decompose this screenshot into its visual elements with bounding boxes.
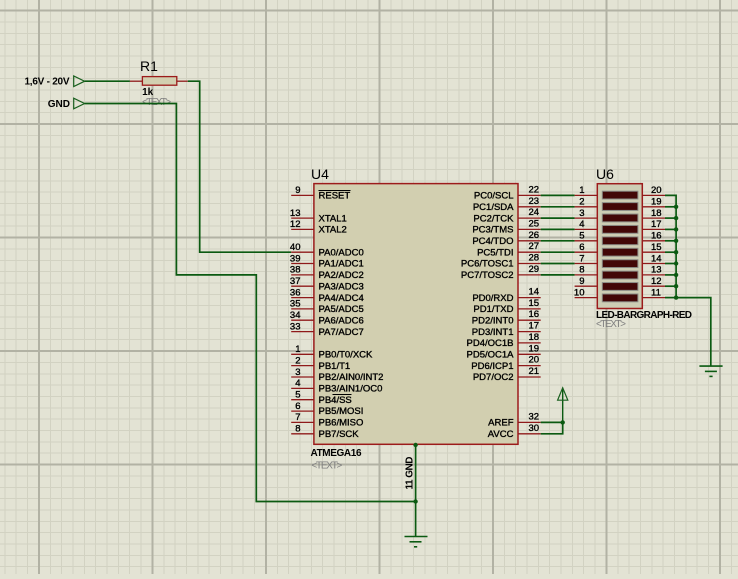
wire bargraph pin 18 to bus: [665, 217, 676, 219]
svg-text:18: 18: [529, 332, 540, 343]
pin 30 (AVCC): [488, 423, 541, 440]
svg-text:24: 24: [529, 207, 540, 218]
svg-text:5: 5: [295, 390, 300, 401]
svg-text:26: 26: [529, 230, 540, 241]
junction gnd net: [413, 499, 417, 503]
pin 6 (PB5/MOSI): [291, 401, 363, 417]
bargraph pin 19: [642, 197, 665, 208]
svg-text:1: 1: [579, 185, 584, 196]
junction: [674, 227, 678, 231]
svg-text:<TEXT>: <TEXT>: [596, 319, 626, 330]
svg-text:PB2/AIN0/INT2: PB2/AIN0/INT2: [319, 372, 384, 383]
bargraph pin 1: [575, 185, 598, 196]
wire PC3 to bargraph pin 4: [541, 228, 575, 230]
svg-text:37: 37: [290, 276, 301, 287]
junction: [674, 250, 678, 254]
bargraph pin 17: [642, 219, 665, 230]
svg-text:PC7/TOSC2: PC7/TOSC2: [461, 270, 514, 281]
led bar 7: [602, 260, 638, 268]
svg-text:PD0/RXD: PD0/RXD: [472, 293, 513, 304]
svg-text:14: 14: [529, 287, 540, 298]
svg-text:PA2/ADC2: PA2/ADC2: [319, 270, 364, 281]
svg-text:PD7/OC2: PD7/OC2: [473, 372, 514, 383]
svg-text:PB4/SS: PB4/SS: [319, 395, 352, 406]
bargraph pin 15: [642, 242, 665, 253]
svg-text:9: 9: [295, 185, 300, 196]
wire bargraph pin 14 to bus: [665, 263, 676, 265]
svg-text:38: 38: [290, 265, 301, 276]
svg-text:19: 19: [651, 197, 662, 208]
pin 32 (AREF): [488, 411, 541, 428]
svg-text:33: 33: [290, 321, 301, 332]
pin 40 (PA0/ADC0): [290, 242, 364, 258]
pin 19 (PD5/OC1A): [467, 343, 541, 360]
junction: [674, 261, 678, 265]
svg-text:XTAL2: XTAL2: [319, 225, 347, 236]
bargraph pin 4: [575, 219, 598, 230]
svg-text:PD5/OC1A: PD5/OC1A: [467, 350, 515, 361]
svg-text:11 GND: 11 GND: [405, 457, 416, 490]
svg-text:U4: U4: [311, 166, 329, 182]
pin 8 (PB7/SCK): [291, 424, 359, 440]
pin 26 (PC4/TDO): [472, 230, 540, 247]
led bar 3: [602, 214, 638, 222]
svg-text:36: 36: [290, 287, 301, 298]
led bar 10: [602, 294, 638, 302]
wire bargraph pin 11 to bus: [665, 297, 676, 299]
svg-text:18: 18: [651, 208, 662, 219]
bargraph pin 3: [575, 208, 598, 219]
wire U4 GND (pin 11): [415, 444, 417, 536]
svg-text:12: 12: [290, 219, 301, 230]
wire bargraph pin 13 to bus: [665, 274, 676, 276]
pin 37 (PA3/ADC3): [290, 276, 364, 292]
pin 7 (PB6/MISO): [291, 412, 363, 428]
svg-text:40: 40: [290, 242, 301, 253]
svg-text:20: 20: [651, 185, 662, 196]
junction AREF/AVCC: [561, 420, 565, 424]
svg-text:3: 3: [295, 367, 300, 378]
svg-text:20: 20: [529, 355, 540, 366]
svg-text:PD3/INT1: PD3/INT1: [472, 327, 514, 338]
pin 3 (PB2/AIN0/INT2): [291, 367, 383, 383]
junction: [674, 239, 678, 243]
bargraph pin 7: [575, 253, 598, 264]
junction: [674, 216, 678, 220]
pin 18 (PD4/OC1B): [467, 332, 541, 349]
terminal input 1,6V - 20V: [25, 76, 85, 88]
junction: [674, 284, 678, 288]
svg-text:PD4/OC1B: PD4/OC1B: [467, 338, 514, 349]
svg-text:17: 17: [651, 219, 662, 230]
pin 9 (RESET): [291, 185, 350, 201]
svg-text:21: 21: [529, 366, 540, 377]
bargraph pin 16: [642, 231, 665, 242]
junction: [674, 295, 678, 299]
svg-text:32: 32: [529, 411, 540, 422]
svg-text:PC1/SDA: PC1/SDA: [473, 202, 514, 213]
svg-text:10: 10: [574, 287, 585, 298]
svg-text:15: 15: [651, 242, 662, 253]
bargraph pin 12: [642, 276, 665, 287]
svg-text:25: 25: [529, 218, 540, 229]
svg-text:9: 9: [579, 276, 584, 287]
pin 12 (XTAL2): [290, 219, 347, 235]
wire PC1 to bargraph pin 2: [541, 206, 575, 208]
svg-text:4: 4: [295, 378, 300, 389]
svg-text:2: 2: [295, 355, 300, 366]
led bar 2: [602, 203, 638, 211]
svg-text:5: 5: [579, 231, 584, 242]
svg-text:27: 27: [529, 241, 540, 252]
ground (bargraph): [699, 366, 722, 376]
svg-text:PA7/ADC7: PA7/ADC7: [319, 327, 364, 338]
terminal GND: [48, 98, 85, 110]
svg-text:PA4/ADC4: PA4/ADC4: [319, 293, 364, 304]
svg-text:1: 1: [295, 344, 300, 355]
pin 23 (PC1/SDA): [473, 196, 541, 213]
svg-text:PA3/ADC3: PA3/ADC3: [319, 281, 364, 292]
svg-text:AREF: AREF: [488, 418, 514, 429]
wire PC2 to bargraph pin 3: [541, 217, 575, 219]
pin 24 (PC2/TCK): [473, 207, 540, 224]
svg-text:PC6/TOSC1: PC6/TOSC1: [461, 259, 514, 270]
bargraph pin 8: [575, 265, 598, 276]
bargraph pin 20: [642, 185, 665, 196]
wire PC6 to bargraph pin 7: [541, 263, 575, 265]
svg-text:13: 13: [290, 208, 301, 219]
pin 17 (PD3/INT1): [472, 321, 541, 338]
svg-text:29: 29: [529, 264, 540, 275]
svg-text:PB7/SCK: PB7/SCK: [319, 429, 360, 440]
junction at chip: [413, 443, 417, 447]
svg-text:12: 12: [651, 276, 662, 287]
wire bargraph cathode bus: [665, 195, 711, 366]
svg-text:<TEXT>: <TEXT>: [311, 460, 342, 471]
junction: [674, 273, 678, 277]
svg-text:PA0/ADC0: PA0/ADC0: [319, 247, 364, 258]
pin 33 (PA7/ADC7): [290, 321, 364, 337]
pin 16 (PD2/INT0): [472, 309, 541, 326]
wire bargraph pin 19 to bus: [665, 206, 676, 208]
pin 29 (PC7/TOSC2): [461, 264, 541, 281]
pin 1 (PB0/T0/XCK): [291, 344, 373, 360]
svg-text:14: 14: [651, 253, 662, 264]
svg-text:PD1/TXD: PD1/TXD: [473, 304, 513, 315]
wire PC5 to bargraph pin 6: [541, 251, 575, 253]
svg-text:35: 35: [290, 299, 301, 310]
led bar 1: [602, 191, 638, 199]
pin 36 (PA4/ADC4): [290, 287, 364, 303]
bargraph pin 9: [575, 276, 598, 287]
svg-text:6: 6: [295, 401, 300, 412]
svg-text:3: 3: [579, 208, 584, 219]
svg-text:XTAL1: XTAL1: [319, 213, 347, 224]
pin 28 (PC6/TOSC1): [461, 253, 541, 270]
bargraph pin 6: [575, 242, 598, 253]
wire bargraph pin 15 to bus: [665, 251, 676, 253]
svg-text:8: 8: [295, 424, 300, 435]
svg-text:19: 19: [529, 343, 540, 354]
pin 22 (PC0/SCL): [474, 184, 541, 201]
wire bargraph pin 17 to bus: [665, 228, 676, 230]
led bar 4: [602, 225, 638, 233]
svg-text:23: 23: [529, 196, 540, 207]
led bar 8: [602, 271, 638, 279]
pin 34 (PA6/ADC6): [290, 310, 364, 326]
wire bargraph pin 12 to bus: [665, 285, 676, 287]
svg-text:28: 28: [529, 253, 540, 264]
led bar 6: [602, 248, 638, 256]
svg-text:17: 17: [529, 321, 540, 332]
svg-text:PB0/T0/XCK: PB0/T0/XCK: [319, 350, 374, 361]
svg-text:30: 30: [529, 423, 540, 434]
svg-text:4: 4: [579, 219, 584, 230]
svg-text:PB6/MISO: PB6/MISO: [319, 418, 364, 429]
ground (U4): [405, 537, 428, 547]
svg-text:6: 6: [579, 242, 584, 253]
svg-text:PC0/SCL: PC0/SCL: [474, 191, 514, 202]
svg-text:ATMEGA16: ATMEGA16: [311, 448, 362, 459]
svg-text:R1: R1: [140, 58, 158, 74]
op U4 ATMEGA16 body: [311, 166, 519, 471]
svg-text:1,6V - 20V: 1,6V - 20V: [25, 77, 70, 88]
svg-text:PC2/TCK: PC2/TCK: [473, 213, 514, 224]
wire bargraph pin 16 to bus: [665, 240, 676, 242]
svg-text:11: 11: [651, 287, 661, 298]
svg-text:16: 16: [529, 309, 540, 320]
svg-text:PB3/AIN1/OC0: PB3/AIN1/OC0: [319, 384, 383, 395]
resistor R1 1k: [130, 58, 188, 98]
bargraph pin 5: [575, 231, 598, 242]
pin 27 (PC5/TDI): [477, 241, 541, 258]
wire PC4 to bargraph pin 5: [541, 240, 575, 242]
pin 15 (PD1/TXD): [473, 298, 540, 315]
svg-text:PA6/ADC6: PA6/ADC6: [319, 315, 364, 326]
svg-text:PB5/MOSI: PB5/MOSI: [319, 406, 364, 417]
pin 25 (PC3/TMS): [472, 218, 540, 235]
bargraph pin 10: [574, 287, 597, 298]
svg-text:PC3/TMS: PC3/TMS: [472, 225, 513, 236]
led bar 5: [602, 237, 638, 245]
svg-text:2: 2: [579, 197, 584, 208]
pin 39 (PA1/ADC1): [290, 253, 364, 269]
pin 21 (PD7/OC2): [473, 366, 541, 383]
pin 38 (PA2/ADC2): [290, 265, 364, 281]
pin 35 (PA5/ADC5): [290, 299, 364, 315]
svg-text:PC5/TDI: PC5/TDI: [477, 247, 513, 258]
wire PC7 to bargraph pin 8: [541, 274, 575, 276]
wire VIN to R1: [85, 80, 130, 82]
svg-text:16: 16: [651, 231, 662, 242]
wire AVCC to power: [541, 422, 563, 433]
svg-text:8: 8: [579, 265, 584, 276]
svg-text:U6: U6: [596, 166, 614, 182]
svg-text:34: 34: [290, 310, 301, 321]
power terminal: [558, 388, 568, 423]
LED bargraph U6 body: [596, 166, 692, 330]
pin 2 (PB1/T1): [291, 355, 350, 371]
svg-text:PD2/INT0: PD2/INT0: [472, 315, 514, 326]
svg-text:PC4/TDO: PC4/TDO: [472, 236, 513, 247]
bargraph pin 18: [642, 208, 665, 219]
svg-text:PB1/T1: PB1/T1: [319, 361, 351, 372]
svg-text:15: 15: [529, 298, 540, 309]
svg-text:7: 7: [295, 412, 300, 423]
pin 14 (PD0/RXD): [472, 287, 540, 304]
svg-text:GND: GND: [48, 99, 70, 110]
pin 4 (PB3/AIN1/OC0): [291, 378, 382, 394]
svg-text:22: 22: [529, 184, 540, 195]
junction: [674, 205, 678, 209]
svg-text:39: 39: [290, 253, 301, 264]
wire GND terminal to ground: [85, 104, 416, 502]
svg-text:RESET: RESET: [319, 191, 351, 202]
bargraph pin 11: [642, 287, 665, 298]
wire AREF to power: [541, 421, 563, 423]
svg-text:PD6/ICP1: PD6/ICP1: [471, 361, 513, 372]
svg-text:AVCC: AVCC: [488, 429, 514, 440]
svg-text:PA5/ADC5: PA5/ADC5: [319, 304, 364, 315]
wire PC0 to bargraph pin 1: [541, 194, 575, 196]
bargraph pin 2: [575, 197, 598, 208]
pin 20 (PD6/ICP1): [471, 355, 540, 372]
pin 5 (PB4/SS): [291, 390, 352, 406]
svg-text:13: 13: [651, 265, 662, 276]
led bar 9: [602, 283, 638, 291]
bargraph pin 14: [642, 253, 665, 264]
svg-text:7: 7: [579, 253, 584, 264]
wire R1 to PA0: [188, 81, 291, 252]
svg-text:PA1/ADC1: PA1/ADC1: [319, 259, 364, 270]
pin 13 (XTAL1): [290, 208, 347, 224]
bargraph pin 13: [642, 265, 665, 276]
